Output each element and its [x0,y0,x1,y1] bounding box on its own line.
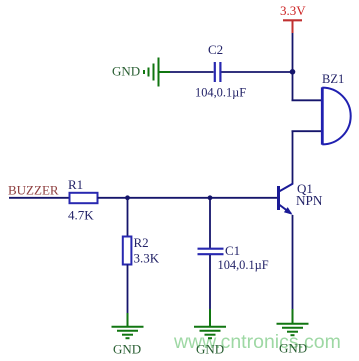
svg-text:BUZZER: BUZZER [8,183,59,198]
svg-text:GND: GND [113,342,141,357]
svg-text:4.7K: 4.7K [68,208,94,223]
svg-text:NPN: NPN [296,193,323,208]
svg-text:GND: GND [279,341,307,356]
svg-text:R2: R2 [134,235,149,250]
svg-text:GND: GND [196,342,224,357]
svg-text:C2: C2 [208,42,223,57]
svg-text:BZ1: BZ1 [322,72,344,86]
svg-text:C1: C1 [225,243,240,258]
svg-text:3.3V: 3.3V [280,3,306,18]
svg-text:104,0.1µF: 104,0.1µF [218,258,269,272]
svg-text:104,0.1µF: 104,0.1µF [195,86,246,100]
svg-text:R1: R1 [68,177,83,192]
svg-text:GND: GND [112,64,140,79]
svg-text:3.3K: 3.3K [134,251,160,266]
